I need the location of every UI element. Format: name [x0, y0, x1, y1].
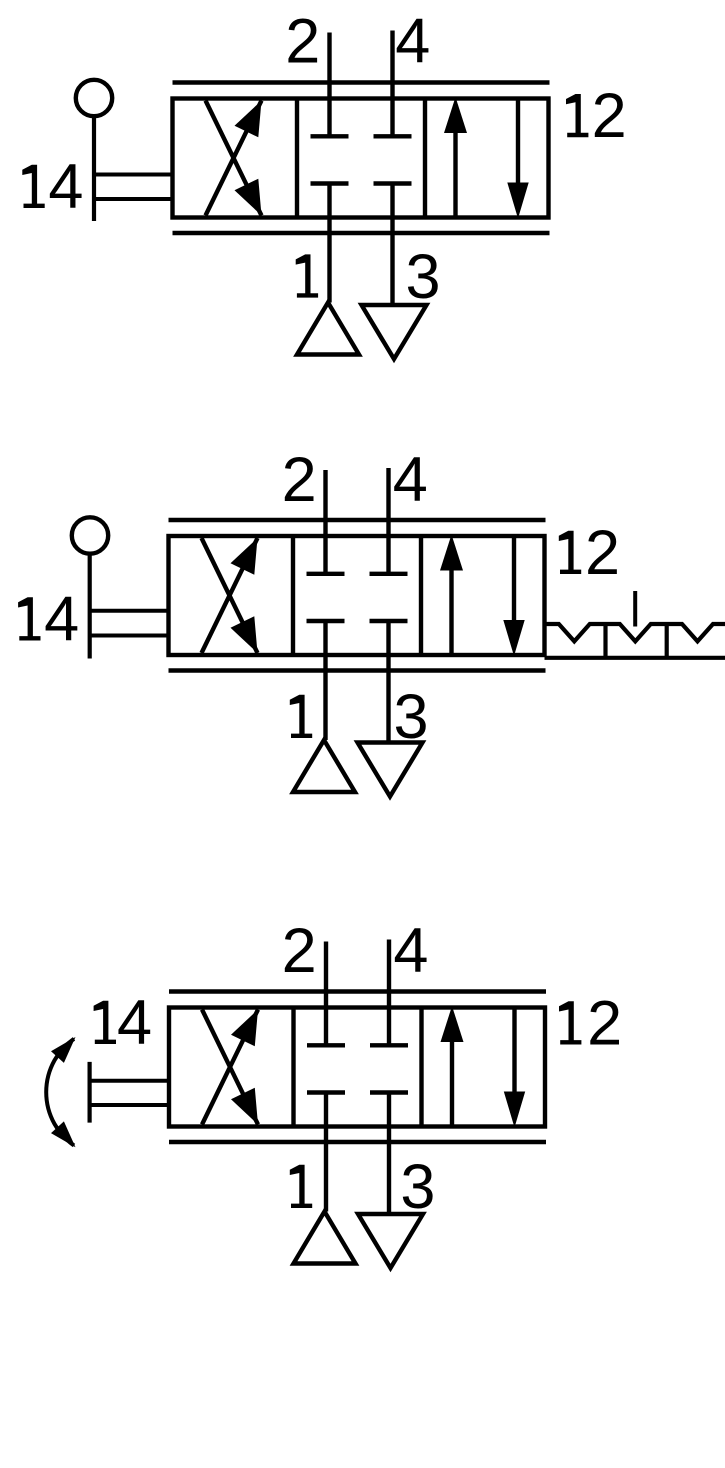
- V3 crossed flow arrowhead (bottom-right): [231, 1088, 258, 1125]
- svg-text:4: 4: [395, 6, 430, 76]
- V1 blocked port bar top-left: [311, 134, 349, 138]
- V2 port 3 line: [386, 621, 390, 743]
- V2 detent bottom line: [545, 656, 725, 660]
- V2 port 1 line: [323, 621, 327, 740]
- svg-text:4: 4: [117, 988, 152, 1058]
- svg-text:2: 2: [282, 916, 317, 986]
- V3 lever rod upper line: [90, 1079, 171, 1083]
- V1 pilot label 12 digit 1: [566, 94, 588, 137]
- V3 pilot label 14 digit 1: [94, 1001, 116, 1044]
- V1 actuator rod lower line: [96, 197, 175, 201]
- V3 body rectangle: [169, 1008, 545, 1127]
- svg-text:2: 2: [587, 989, 622, 1059]
- V1 overline: [173, 80, 550, 84]
- V1 pressure source triangle (port 1): [297, 303, 359, 355]
- V2 detent position pin: [633, 591, 637, 627]
- V2 underline: [169, 668, 546, 672]
- V1 knob stem: [92, 116, 96, 222]
- V1 exhaust triangle (port 3): [362, 305, 427, 359]
- V2 actuator rod lower line: [92, 634, 171, 638]
- V2 exhaust triangle (port 3): [358, 743, 423, 797]
- V2 up-flow arrowhead: [440, 535, 463, 571]
- V1 blocked port bar bottom-right: [374, 181, 412, 185]
- V3 underline: [169, 1140, 546, 1144]
- V3 blocked port bar bottom-right: [370, 1090, 408, 1094]
- V3 lever bar: [87, 1062, 91, 1123]
- V3 lever swing arc: [46, 1039, 74, 1146]
- svg-text:3: 3: [393, 682, 428, 752]
- V1 body rectangle: [173, 99, 549, 218]
- V3 chamber divider right: [419, 1008, 423, 1127]
- V1 down-flow arrowhead: [507, 183, 528, 219]
- V2 overline: [169, 518, 546, 522]
- V2 knob stem: [88, 553, 92, 659]
- V2 down-flow arrowhead: [503, 620, 524, 656]
- V1 actuator rod upper line: [96, 173, 175, 177]
- svg-text:4: 4: [393, 916, 428, 986]
- V3 lever rod lower line: [90, 1103, 171, 1107]
- V3 port 2 line: [324, 942, 328, 1046]
- svg-text:4: 4: [393, 445, 428, 515]
- V2 pressure source triangle (port 1): [293, 740, 355, 792]
- svg-text:3: 3: [405, 242, 440, 312]
- V1 chamber divider left: [295, 99, 299, 218]
- V3 port 1 line: [324, 1093, 328, 1212]
- V3 blocked port bar bottom-left: [307, 1090, 345, 1094]
- V1 port 2 line: [327, 33, 331, 137]
- V2 down-flow arrow shaft: [512, 537, 516, 622]
- V1 push-pull knob circle: [76, 80, 112, 116]
- V3 crossed flow line (bottom-left to top-right): [202, 1010, 258, 1125]
- V3 port label 1: [290, 1165, 312, 1208]
- V3 pressure source triangle (port 1): [294, 1212, 356, 1264]
- V2 blocked port bar top-right: [370, 572, 408, 576]
- V3 swing arc arrowhead top: [51, 1037, 76, 1063]
- V3 blocked port bar top-right: [370, 1043, 408, 1047]
- V2 crossed flow line (top-left to bottom-right): [202, 538, 258, 653]
- V1 crossed flow arrowhead (top-right): [235, 101, 262, 138]
- V2 crossed flow arrowhead (top-right): [231, 538, 258, 575]
- V3 overline: [169, 989, 546, 993]
- svg-text:2: 2: [285, 6, 320, 76]
- V1 up-flow arrow shaft: [453, 129, 457, 218]
- svg-text:4: 4: [44, 585, 79, 655]
- V2 detent notched profile: [545, 624, 725, 641]
- V3 down-flow arrowhead: [504, 1092, 525, 1128]
- V1 port 1 line: [327, 184, 331, 303]
- V1 chamber divider right: [423, 99, 427, 218]
- V2 pilot label 12 digit 1: [559, 531, 581, 574]
- V2 port 2 line: [323, 470, 327, 574]
- V1 up-flow arrowhead: [444, 97, 467, 133]
- svg-text:2: 2: [585, 518, 620, 588]
- V2 port label 1: [290, 695, 312, 738]
- V2 up-flow arrow shaft: [449, 566, 453, 655]
- V3 pilot label 12 digit 1: [559, 1001, 581, 1044]
- V2 chamber divider left: [291, 536, 295, 655]
- V2 body rectangle: [169, 536, 545, 655]
- V1 crossed flow line (bottom-left to top-right): [206, 101, 262, 216]
- V2 blocked port bar bottom-left: [307, 619, 345, 623]
- V3 up-flow arrowhead: [441, 1006, 464, 1042]
- V1 crossed flow line (top-left to bottom-right): [206, 101, 262, 216]
- V2 crossed flow arrowhead (bottom-right): [231, 616, 258, 653]
- V2 actuator rod upper line: [92, 609, 171, 613]
- svg-text:2: 2: [282, 445, 317, 515]
- V1 pilot label 14 digit 1: [22, 165, 44, 208]
- V3 blocked port bar top-left: [307, 1043, 345, 1047]
- V1 down-flow arrow shaft: [516, 100, 520, 185]
- V1 blocked port bar top-right: [374, 134, 412, 138]
- V3 down-flow arrow shaft: [512, 1009, 516, 1094]
- V3 crossed flow arrowhead (top-right): [231, 1010, 258, 1047]
- V1 port 4 line: [390, 31, 394, 137]
- V3 exhaust triangle (port 3): [358, 1214, 423, 1268]
- V2 detent divider 1: [603, 624, 607, 658]
- svg-text:3: 3: [400, 1152, 435, 1222]
- V3 port 3 line: [387, 1093, 391, 1215]
- V2 chamber divider right: [419, 536, 423, 655]
- V2 crossed flow line (bottom-left to top-right): [202, 538, 258, 653]
- V1 crossed flow arrowhead (bottom-right): [235, 179, 262, 216]
- V3 chamber divider left: [291, 1008, 295, 1127]
- V1 port 3 line: [390, 184, 394, 306]
- V2 detent divider 2: [665, 624, 669, 658]
- V3 crossed flow line (top-left to bottom-right): [202, 1010, 258, 1125]
- V2 port 4 line: [386, 468, 390, 574]
- V2 blocked port bar bottom-right: [370, 619, 408, 623]
- V2 blocked port bar top-left: [307, 572, 345, 576]
- V1 blocked port bar bottom-left: [311, 181, 349, 185]
- svg-text:2: 2: [592, 81, 627, 151]
- V1 port label 1: [296, 254, 318, 297]
- V2 push-pull knob circle: [72, 517, 108, 553]
- V2 pilot label 14 digit 1: [18, 597, 40, 640]
- V3 port 4 line: [387, 940, 391, 1046]
- V3 swing arc arrowhead bottom: [51, 1121, 76, 1147]
- V1 underline: [173, 231, 550, 235]
- svg-text:4: 4: [48, 152, 83, 222]
- V3 up-flow arrow shaft: [450, 1038, 454, 1127]
